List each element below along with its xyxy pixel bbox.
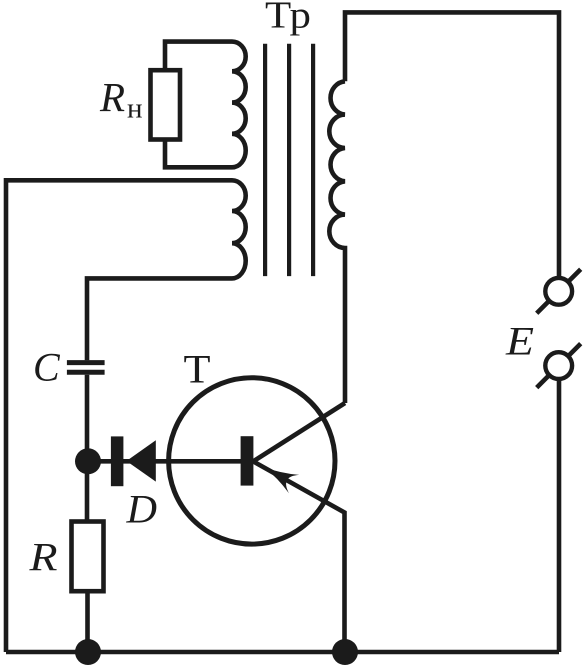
svg-text:Тр: Тр — [265, 0, 311, 37]
svg-text:D: D — [125, 487, 157, 532]
svg-text:E: E — [505, 319, 534, 364]
svg-text:R: R — [99, 74, 125, 120]
svg-text:н: н — [127, 93, 143, 125]
svg-text:C: C — [33, 345, 61, 390]
svg-text:Т: Т — [184, 347, 211, 392]
svg-text:R: R — [28, 535, 57, 580]
